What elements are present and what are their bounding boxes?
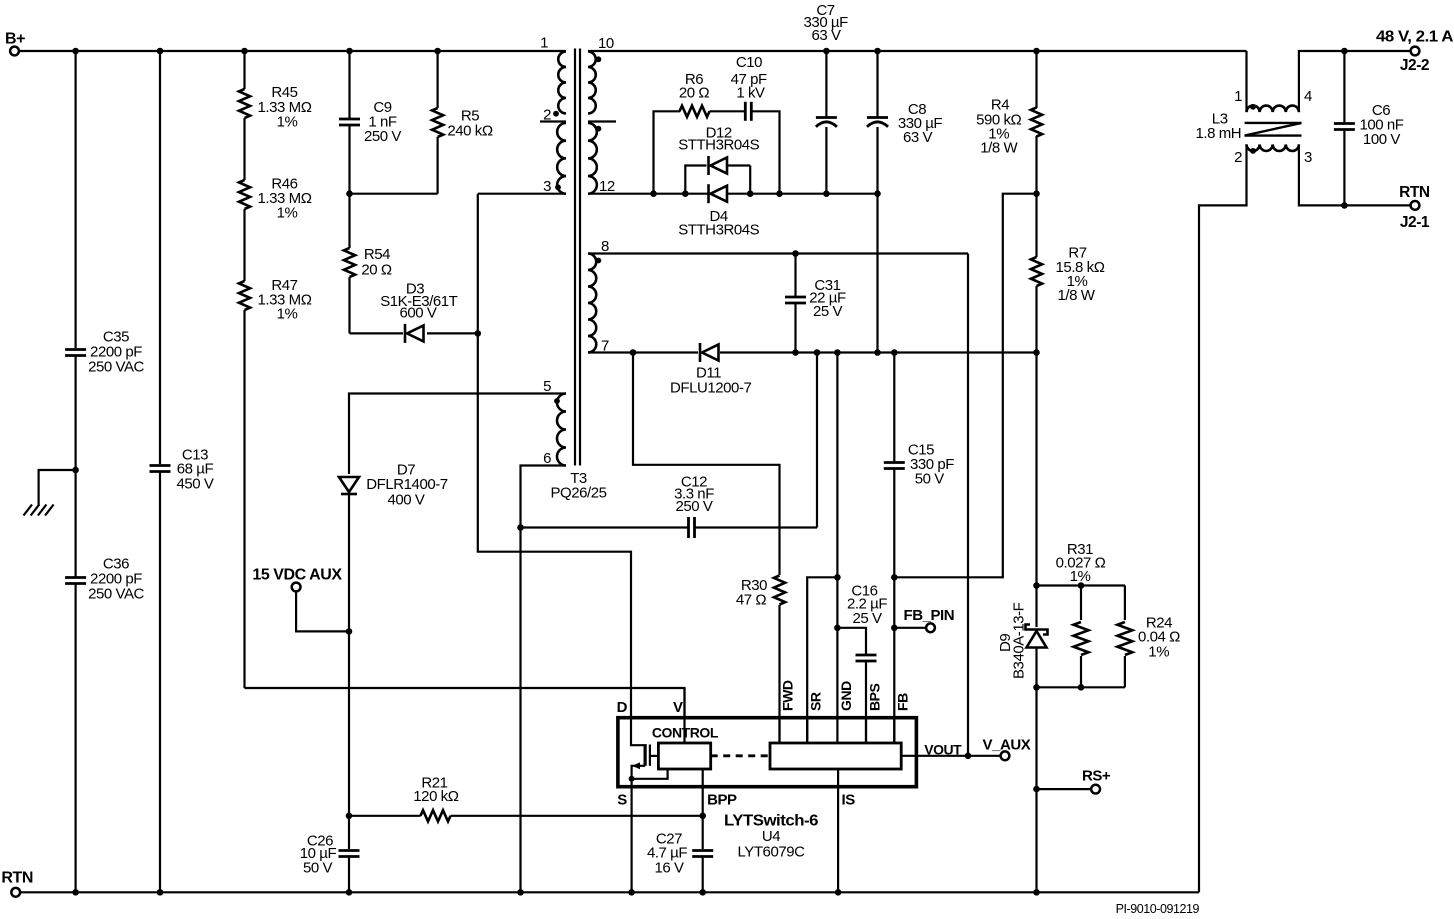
svg-text:STTH3R04S: STTH3R04S	[678, 137, 759, 154]
svg-text:1.8 mH: 1.8 mH	[1195, 125, 1241, 142]
svg-text:1%: 1%	[277, 205, 298, 222]
wire R30 to FWD pin	[778, 605, 780, 743]
diode D3	[404, 324, 407, 343]
node snubber left	[650, 190, 657, 197]
svg-text:450 V: 450 V	[177, 476, 214, 493]
capacitor C27	[702, 816, 704, 849]
svg-text:25 V: 25 V	[852, 610, 882, 627]
svg-text:250 VAC: 250 VAC	[88, 359, 144, 376]
resistor R5	[432, 108, 443, 137]
svg-text:120 kΩ: 120 kΩ	[413, 788, 458, 805]
svg-text:1%: 1%	[277, 114, 298, 131]
resistor R24	[1124, 586, 1126, 621]
earth ground	[39, 470, 76, 506]
svg-text:RTN: RTN	[1, 870, 33, 887]
transformer T3 primary winding 1-2	[558, 52, 566, 114]
U4 source to control box	[632, 769, 668, 779]
svg-text:RS+: RS+	[1082, 768, 1111, 785]
capacitor C36	[65, 576, 86, 579]
node shunt bottom left	[1033, 684, 1040, 691]
wire shunt to RTN rail	[1035, 789, 1037, 892]
node B+/C9	[346, 48, 353, 55]
node 48V/C6	[1341, 48, 1348, 55]
L3 phase dot pin 1	[1250, 104, 1256, 110]
resistor R54	[344, 248, 355, 277]
node B+/C13	[157, 48, 164, 55]
node rail/C7	[823, 48, 830, 55]
svg-text:1%: 1%	[1070, 568, 1091, 585]
node pin6/C12	[517, 524, 524, 531]
wire C9-R5 bottom	[350, 193, 438, 195]
V_AUX terminal	[968, 755, 1001, 757]
svg-text:C10: C10	[736, 54, 762, 71]
wire pin 5 line	[349, 394, 566, 475]
node aux/R21	[346, 813, 353, 820]
inductor L3 top winding	[1247, 106, 1299, 113]
svg-text:50 V: 50 V	[915, 471, 945, 488]
wire pin8 to VOUT vertical	[967, 254, 969, 756]
L3 phase dot pin 2	[1250, 148, 1256, 154]
48V terminal	[1411, 47, 1420, 56]
diode D12	[707, 156, 710, 175]
node FB/divider	[891, 574, 898, 581]
node shunt top left	[1033, 582, 1040, 589]
node ground tap	[72, 467, 79, 474]
U4 secondary block	[770, 743, 901, 769]
svg-text:CONTROL: CONTROL	[652, 725, 719, 741]
snubber loop right vertical	[751, 111, 779, 193]
node return/C12	[814, 349, 821, 356]
U4 MOSFET	[631, 718, 644, 746]
svg-text:J2-1: J2-1	[1400, 214, 1430, 231]
wire FWD pin inside	[778, 718, 780, 743]
node return/C8	[874, 349, 881, 356]
node C7 bottom	[823, 190, 830, 197]
resistor R30	[774, 576, 785, 605]
node pin7	[630, 349, 637, 356]
wire C35 column	[74, 51, 76, 348]
svg-text:B340A-13-F: B340A-13-F	[1011, 602, 1028, 679]
capacitor C8	[876, 51, 878, 117]
svg-text:LYTSwitch-6: LYTSwitch-6	[724, 813, 819, 830]
capacitor C15	[893, 353, 895, 463]
diode D4	[707, 184, 710, 203]
svg-text:1/8 W: 1/8 W	[980, 140, 1018, 157]
wire C8 column down	[876, 194, 878, 353]
wire FB column to pin	[893, 628, 895, 743]
phase dot pin 10	[596, 56, 602, 62]
wire L3 pin4 to 48V	[1299, 51, 1411, 112]
svg-text:GND: GND	[838, 681, 854, 711]
node D12 right	[747, 190, 754, 197]
svg-text:SR: SR	[808, 692, 824, 711]
U4 control box	[658, 743, 710, 769]
L3 core	[1245, 122, 1302, 124]
svg-text:2: 2	[543, 107, 551, 124]
svg-text:100 V: 100 V	[1363, 131, 1400, 148]
resistor R21	[349, 815, 421, 817]
svg-text:FWD: FWD	[780, 680, 796, 711]
wire C16 branch	[837, 628, 866, 655]
svg-text:1%: 1%	[1148, 644, 1169, 661]
wire pin 12 line	[588, 193, 708, 195]
svg-text:2: 2	[1234, 149, 1242, 166]
node B+/R5	[434, 48, 441, 55]
resistor R7	[1035, 194, 1037, 257]
svg-text:DFLU1200-7: DFLU1200-7	[670, 380, 751, 397]
pin 2 stub	[540, 120, 566, 122]
node C27/RTN rail	[699, 889, 706, 896]
wire S pin	[630, 779, 632, 893]
svg-text:PQ26/25: PQ26/25	[550, 485, 606, 502]
svg-text:VOUT: VOUT	[924, 742, 962, 758]
node return/GND	[834, 349, 841, 356]
inductor L3 bottom winding	[1247, 144, 1299, 151]
wire VOUT	[901, 755, 968, 757]
phase dot pin 8	[596, 258, 602, 264]
svg-text:U4: U4	[762, 828, 780, 845]
node RTN/C36	[72, 889, 79, 896]
wire pin 8 line	[588, 252, 968, 254]
svg-text:63 V: 63 V	[903, 129, 933, 146]
wire shunt to RS+	[1035, 687, 1037, 789]
node IS/RTN rail	[835, 889, 842, 896]
wire R6 to C10	[710, 110, 746, 112]
svg-text:D: D	[617, 699, 628, 716]
RTN output terminal	[1411, 201, 1420, 210]
wire V pin	[683, 688, 685, 743]
svg-text:1: 1	[1234, 88, 1242, 105]
svg-text:BPP: BPP	[707, 792, 737, 809]
svg-text:16 V: 16 V	[654, 860, 684, 877]
capacitor C35	[65, 348, 86, 351]
node GND/SR tie	[834, 574, 841, 581]
phase dot winding 11-12	[596, 126, 602, 132]
wire C9 column	[348, 51, 350, 119]
svg-text:V_AUX: V_AUX	[983, 737, 1031, 754]
svg-text:3: 3	[1304, 149, 1312, 166]
svg-text:48 V, 2.1 A: 48 V, 2.1 A	[1376, 29, 1453, 46]
transformer T3 secondary winding 11-12	[588, 123, 597, 194]
wire BPP pin	[702, 769, 704, 816]
wire R54 to D3	[348, 277, 350, 333]
D12 branch	[685, 166, 706, 194]
resistor R45	[239, 89, 250, 118]
capacitor C10	[744, 102, 747, 121]
svg-text:J2-2: J2-2	[1400, 57, 1429, 74]
svg-text:1/8 W: 1/8 W	[1058, 287, 1096, 304]
svg-text:LYT6079C: LYT6079C	[738, 844, 806, 861]
node RTN/C6	[1341, 202, 1348, 209]
shunt top line	[1035, 353, 1037, 586]
node S/RTN rail	[628, 889, 635, 896]
svg-text:STTH3R04S: STTH3R04S	[678, 222, 759, 239]
node snubber right	[776, 190, 783, 197]
svg-text:RTN: RTN	[1399, 184, 1430, 201]
RS+ terminal	[1037, 788, 1092, 790]
svg-text:15 VDC AUX: 15 VDC AUX	[252, 567, 342, 584]
transformer T3 aux winding 5-6	[557, 394, 566, 466]
wire aux to C26	[348, 816, 350, 849]
wire C12 to return	[816, 353, 818, 528]
snubber loop left vertical	[654, 111, 681, 193]
node BPP/R21/C27	[699, 813, 706, 820]
node pin6col/RTN rail	[517, 889, 524, 896]
transformer T3 primary winding 2-3	[557, 123, 566, 194]
transformer T3 secondary winding 10-11	[588, 52, 596, 114]
svg-text:V: V	[673, 699, 683, 716]
capacitor C31	[794, 254, 796, 297]
wire R5 column	[437, 51, 439, 108]
resistor R6	[680, 106, 710, 117]
phase dot pin 3	[555, 184, 561, 190]
capacitor C6	[1343, 51, 1345, 123]
wire BPS pin inside	[865, 718, 867, 743]
phase dot pin 5	[554, 398, 560, 404]
wire FB divider tap	[894, 194, 1036, 578]
node rail/C8	[874, 48, 881, 55]
node pin8/C31	[792, 250, 799, 257]
node GND/C16	[834, 625, 841, 632]
node VOUT/V_AUX	[965, 753, 972, 760]
capacitor C13	[150, 464, 171, 467]
wire rail to L3 pin 1	[1245, 51, 1247, 112]
node return/C15	[891, 349, 898, 356]
svg-text:1%: 1%	[277, 306, 298, 323]
wire pin 6 line	[521, 466, 567, 528]
node FB_PIN tap	[891, 625, 898, 632]
svg-text:25 V: 25 V	[813, 303, 843, 320]
node D12 left	[682, 190, 689, 197]
node D3/drain	[475, 330, 482, 337]
wire SR pin inside	[806, 718, 808, 743]
node shunt bottom R31	[1078, 684, 1085, 691]
wire V-pin line	[245, 688, 685, 717]
wire pin 7 line left	[588, 351, 698, 353]
wire pin7 to FWD	[633, 353, 780, 576]
wire GND column	[836, 353, 838, 718]
svg-text:1: 1	[540, 35, 548, 52]
node B+/C35	[72, 48, 79, 55]
node R4/R7	[1033, 190, 1040, 197]
capacitor C26	[339, 849, 360, 852]
wire C16 to BPS pin	[865, 661, 867, 743]
svg-text:600 V: 600 V	[400, 305, 437, 322]
IC U4 outer box	[618, 718, 917, 787]
svg-text:250 VAC: 250 VAC	[88, 586, 144, 603]
svg-text:S: S	[617, 792, 627, 809]
svg-text:63 V: 63 V	[811, 27, 841, 44]
wire aux column	[348, 631, 350, 815]
svg-text:4: 4	[1304, 88, 1312, 105]
wire D7 to aux node	[348, 494, 350, 631]
capacitor C9	[339, 118, 360, 121]
svg-text:50 V: 50 V	[303, 860, 333, 877]
svg-text:3: 3	[543, 178, 551, 195]
svg-text:R54: R54	[364, 246, 390, 263]
FB_PIN terminal	[894, 627, 926, 629]
capacitor C12	[687, 517, 690, 538]
node C8 bottom	[874, 190, 881, 197]
transformer core	[574, 49, 576, 466]
wire B+ top rail	[19, 50, 566, 52]
svg-text:240 kΩ: 240 kΩ	[447, 123, 492, 140]
wire D11 to sense node	[720, 351, 1037, 353]
node return/C31	[792, 349, 799, 356]
wire L3 pin2 return	[1199, 144, 1247, 892]
resistor R47	[239, 281, 250, 310]
resistor R46	[239, 180, 250, 209]
shunt bottom line	[1037, 686, 1125, 688]
pin 11 stub	[588, 120, 616, 122]
wire pin6 column to RTN	[519, 528, 521, 893]
svg-text:1 kV: 1 kV	[736, 85, 765, 102]
wire C12 line	[521, 526, 689, 528]
wire drain vertical	[478, 194, 631, 717]
capacitor C16	[856, 654, 877, 657]
node C9/R5/R54	[346, 190, 353, 197]
transformer T3 secondary winding 8-7	[588, 254, 596, 353]
svg-text:DFLR1400-7: DFLR1400-7	[366, 476, 447, 493]
resistor R4	[1035, 51, 1037, 108]
svg-text:20 Ω: 20 Ω	[679, 85, 710, 102]
svg-text:PI-9010-091219: PI-9010-091219	[1116, 902, 1200, 916]
wire C13 column	[159, 51, 161, 464]
U4 dashed link	[711, 754, 770, 757]
diode D11	[699, 343, 702, 362]
node RS+ tap	[1033, 786, 1040, 793]
svg-text:250 V: 250 V	[364, 128, 401, 145]
svg-text:FB_PIN: FB_PIN	[904, 607, 955, 624]
wire pin 10 top line	[588, 50, 1247, 52]
node C26/RTN rail	[346, 889, 353, 896]
svg-text:IS: IS	[842, 792, 856, 809]
wire RTN bottom rail	[20, 891, 1199, 893]
wire IS pin	[837, 769, 839, 892]
svg-text:400 V: 400 V	[388, 492, 425, 509]
capacitor C7	[825, 51, 827, 117]
wire SR tie	[807, 577, 837, 743]
wire pin 3 line	[478, 193, 566, 195]
U4 source node dot	[629, 776, 635, 782]
node return/R7	[1033, 349, 1040, 356]
svg-text:10: 10	[598, 35, 614, 52]
svg-text:FB: FB	[895, 693, 911, 711]
svg-text:250 V: 250 V	[676, 498, 713, 515]
svg-text:12: 12	[599, 178, 615, 195]
wire GND pin inside	[836, 718, 838, 743]
diode D9	[1035, 586, 1037, 628]
wire L3 pin3 to RTN out	[1299, 144, 1411, 205]
node shunt/RTN rail	[1033, 889, 1040, 896]
svg-text:BPS: BPS	[867, 683, 883, 711]
node rail/R4	[1033, 48, 1040, 55]
resistor R31	[1080, 586, 1082, 621]
phase dot winding 2-3	[553, 111, 559, 117]
node aux/15VDC	[346, 628, 353, 635]
wire FB pin inside	[893, 718, 895, 743]
diode D7	[341, 493, 357, 496]
svg-text:47 Ω: 47 Ω	[736, 592, 767, 609]
node shunt top R31	[1078, 582, 1085, 589]
svg-text:B+: B+	[5, 31, 25, 48]
wire D4 to C7/C8	[727, 193, 878, 195]
node RTN/C13	[157, 889, 164, 896]
svg-text:20 Ω: 20 Ω	[361, 262, 392, 279]
node B+/R45	[241, 48, 248, 55]
wire R45-R47 column	[243, 51, 245, 89]
